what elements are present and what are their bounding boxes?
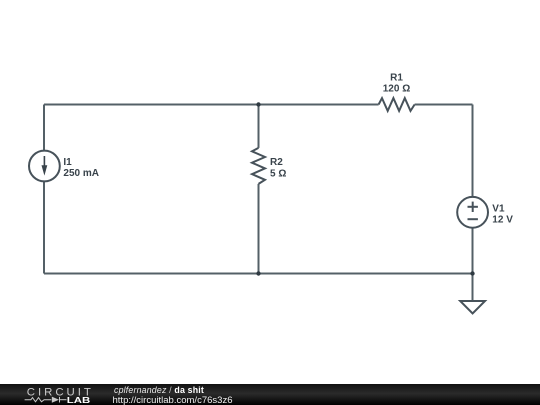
wire left vertical below I1 [43,182,45,274]
wire right vertical above V1 [472,105,474,198]
ground [460,301,485,314]
wire top from left corner to R1 [44,104,379,106]
label V1 12 V [492,204,513,226]
label R2 5 Ω [270,157,286,180]
label I1 250 mA [63,157,99,179]
wire middle vertical below R2 [258,184,260,274]
wire middle vertical above R2 [258,105,260,148]
current source I1 [29,151,60,182]
voltage source V1 [457,197,488,228]
label R1 120 Ω [383,73,410,95]
resistor R2 [252,148,265,184]
svg-text:I1: I1 [63,157,72,168]
wire right vertical below V1 [472,228,474,301]
footer bar [0,384,540,405]
logo diode triangle [52,397,59,403]
logo resistor squiggle and diode [25,397,67,403]
svg-text:120 Ω: 120 Ω [383,84,410,95]
node ground junction [470,271,474,275]
svg-text:R1: R1 [390,73,403,84]
wire bottom from left corner to ground junction [44,273,473,275]
wire left vertical above I1 [43,105,45,151]
wire top from R1 to right corner [415,104,473,106]
svg-text:5 Ω: 5 Ω [270,169,286,180]
svg-text:http://circuitlab.com/c76s3z6: http://circuitlab.com/c76s3z6 [113,395,233,405]
svg-text:LAB: LAB [67,396,91,405]
svg-text:12 V: 12 V [492,215,513,226]
node bottom middle junction [256,271,260,275]
svg-text:cplfernandez / da shit: cplfernandez / da shit [114,385,204,395]
svg-text:V1: V1 [492,204,505,215]
resistor R1 [379,98,415,111]
node top junction [256,102,260,106]
svg-text:250 mA: 250 mA [63,168,99,179]
svg-text:R2: R2 [270,157,283,168]
